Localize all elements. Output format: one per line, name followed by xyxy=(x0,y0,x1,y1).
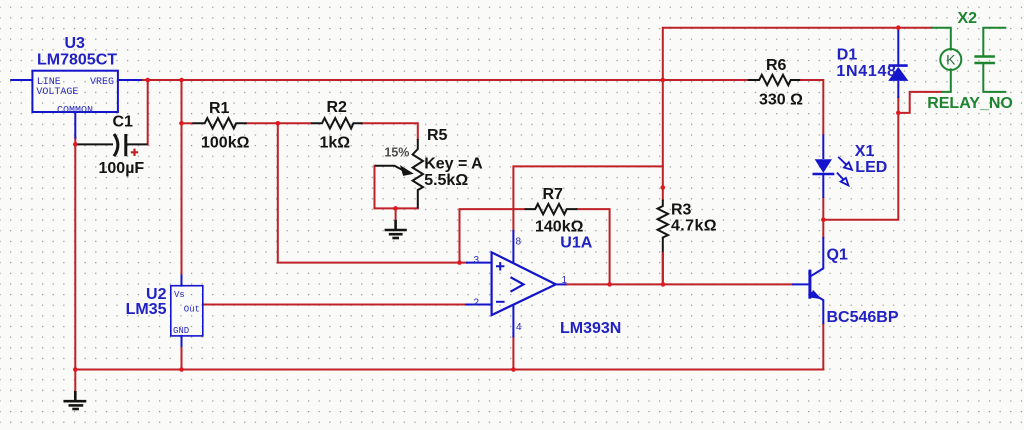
wire relay contact bottom lead xyxy=(983,64,1005,92)
wire D1 node to relay coil bottom xyxy=(898,92,942,113)
svg-text:R5: R5 xyxy=(427,127,448,144)
wire U3 VREG output lead xyxy=(118,79,141,81)
svg-text:R6: R6 xyxy=(766,57,787,74)
wire left ground stub xyxy=(74,370,76,392)
temperature sensor U2 LM35 xyxy=(126,286,203,336)
svg-text:Key = A: Key = A xyxy=(424,155,483,172)
relay coil X2 xyxy=(927,10,1013,112)
resistor R3 xyxy=(658,200,717,285)
svg-text:BC546BP: BC546BP xyxy=(827,309,899,326)
resistor R7 xyxy=(525,186,584,236)
LED X1 xyxy=(813,134,888,198)
wire relay contact top lead xyxy=(983,28,1005,56)
ground under R5 xyxy=(385,220,407,238)
wire op-amp pin8 lead xyxy=(512,231,514,263)
capacitor C1 xyxy=(75,114,147,178)
svg-text:4.7kΩ: 4.7kΩ xyxy=(671,218,717,235)
svg-text:4: 4 xyxy=(516,322,522,333)
wire rail drop to U2 Vs through R1 node xyxy=(181,80,183,276)
wire R5 ground stub xyxy=(395,208,397,220)
svg-text:X2: X2 xyxy=(958,10,978,27)
svg-text:140kΩ: 140kΩ xyxy=(535,219,584,236)
svg-text:U1A: U1A xyxy=(560,235,592,252)
svg-text:LM7805CT: LM7805CT xyxy=(37,52,117,69)
svg-text:GND: GND xyxy=(173,326,189,336)
wire R5 bottom to wiper loop xyxy=(375,166,418,209)
wire LED cathode down to node xyxy=(822,198,824,220)
svg-text:3: 3 xyxy=(473,255,479,266)
svg-text:K: K xyxy=(946,51,956,67)
wire R7 right branch to output xyxy=(577,209,609,284)
wire op-amp output to Q1 base xyxy=(566,283,793,285)
wire U2 Vs lead xyxy=(181,276,183,286)
wire 5V rail from U3 VREG to R6 xyxy=(141,79,748,81)
svg-text:Vs: Vs xyxy=(174,290,185,300)
svg-text:8: 8 xyxy=(516,237,522,248)
wire LED node to D1 anode riser xyxy=(823,113,898,220)
wire ground rail xyxy=(75,144,823,369)
svg-text:100µF: 100µF xyxy=(99,160,145,177)
diode D1 1N4148 xyxy=(836,29,908,98)
svg-text:VOLTAGE: VOLTAGE xyxy=(36,87,78,98)
wire green top rail to relay coil xyxy=(932,28,951,50)
svg-text:15%: 15% xyxy=(384,146,409,160)
wire U3 COMMON lead xyxy=(74,112,76,138)
resistor R2 xyxy=(311,99,363,152)
potentiometer R5 xyxy=(375,127,483,208)
transistor Q1 BC546BP xyxy=(792,237,899,326)
svg-text:R1: R1 xyxy=(209,100,230,117)
svg-text:Out: Out xyxy=(184,305,200,315)
wire op-amp pin2 lead xyxy=(466,304,492,306)
svg-text:330 Ω: 330 Ω xyxy=(759,91,803,108)
wire op-amp pin4 to ground rail xyxy=(512,337,514,370)
svg-text:5.5kΩ: 5.5kΩ xyxy=(424,172,468,189)
svg-text:1kΩ: 1kΩ xyxy=(320,135,351,152)
wire op-amp pin4 lead xyxy=(512,305,514,337)
wire R3 bottom red xyxy=(662,252,664,284)
svg-text:Q1: Q1 xyxy=(827,246,848,263)
svg-text:U3: U3 xyxy=(65,35,86,52)
svg-text:RELAY_NO: RELAY_NO xyxy=(927,95,1013,112)
resistor R1 xyxy=(192,100,249,152)
svg-text:2: 2 xyxy=(473,298,479,309)
relay contact plates xyxy=(974,57,995,64)
wire R7 left branch xyxy=(460,209,525,263)
wire op-amp pin3 lead xyxy=(467,262,492,264)
wire U2 GND lead xyxy=(181,336,183,346)
resistor R6 xyxy=(748,57,803,108)
wire U3 LINE input lead xyxy=(11,79,32,81)
wire R2 to R5 top xyxy=(363,123,418,139)
wire rail drop to C1 xyxy=(147,80,149,144)
svg-text:C1: C1 xyxy=(113,114,134,131)
svg-text:D1: D1 xyxy=(837,47,858,64)
svg-text:VREG: VREG xyxy=(90,77,114,88)
wire U2 Out to op-amp minus input xyxy=(203,304,466,306)
svg-text:R3: R3 xyxy=(671,202,692,219)
svg-text:100kΩ: 100kΩ xyxy=(201,135,250,152)
wire R6 output to LED anode xyxy=(800,80,823,134)
svg-text:X1: X1 xyxy=(855,143,875,160)
wire green relay coil bottom xyxy=(942,69,951,92)
wire divider tap R1/R2 to op-amp plus input xyxy=(278,123,467,262)
wire D1 anode red stub xyxy=(897,97,899,113)
svg-text:R2: R2 xyxy=(327,99,348,116)
wire vertical 5V riser and top rail xyxy=(663,28,932,200)
svg-text:LM35: LM35 xyxy=(126,301,167,318)
ground bottom left xyxy=(64,391,87,409)
wire R1 left red stub xyxy=(182,122,193,124)
wire op-amp pin1 lead xyxy=(556,283,566,285)
wire U2 GND red stub xyxy=(181,346,183,370)
wire Q1 collector up to node xyxy=(822,220,824,237)
wire op-amp pin8 supply xyxy=(513,166,662,231)
wire Q1 emitter to ground rail xyxy=(822,324,824,370)
svg-text:LM393N: LM393N xyxy=(560,320,621,337)
svg-text:R7: R7 xyxy=(543,186,564,203)
svg-text:1N4148: 1N4148 xyxy=(836,63,896,80)
svg-text:1: 1 xyxy=(562,275,568,286)
svg-text:COMMON: COMMON xyxy=(57,106,93,117)
op-amp U1A LM393N xyxy=(473,235,621,338)
wire R1 to R2 xyxy=(247,122,311,124)
wire U3 COMMON red stub xyxy=(74,138,76,145)
voltage regulator U3 xyxy=(32,35,118,117)
svg-text:LED: LED xyxy=(855,159,887,176)
